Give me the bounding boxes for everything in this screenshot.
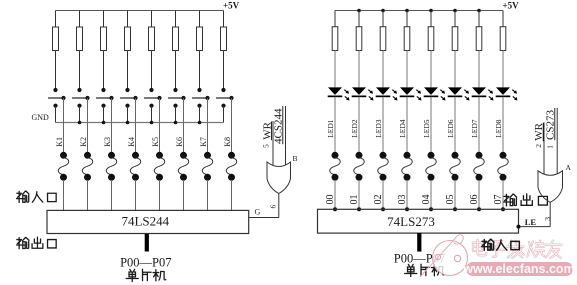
junction (126, 121, 130, 125)
junction (405, 207, 409, 211)
resistor R14 (454, 11, 456, 27)
wire (79, 51, 81, 91)
connector pair O1 (356, 152, 363, 159)
switch arm (144, 97, 160, 99)
svg-text:LED2: LED2 (350, 119, 359, 138)
switch K2 contacts (77, 88, 81, 92)
wire (502, 180, 504, 209)
junction (501, 207, 505, 211)
wire CS273 input (556, 108, 558, 174)
wire (502, 51, 504, 88)
junction (517, 225, 521, 229)
wire gate output pin 3 to LE (549, 202, 551, 226)
svg-text:6: 6 (268, 205, 277, 209)
watermark text 电子发烧友 (473, 240, 486, 256)
wire K4 to input (135, 98, 137, 152)
wire (454, 180, 456, 209)
svg-text:K6: K6 (175, 137, 184, 147)
IC U2 74LS273 (318, 209, 519, 233)
or-gate U4 (WR + CS273) (538, 171, 563, 203)
wire (478, 97, 480, 152)
connector pair O7 (500, 152, 507, 159)
svg-text:74LS244: 74LS244 (121, 214, 169, 229)
wire K8 to input (231, 98, 233, 152)
wire (223, 51, 225, 91)
LED3 (376, 87, 390, 95)
wire (334, 97, 336, 152)
wire (382, 97, 384, 152)
switch arm (168, 97, 184, 99)
junction (333, 207, 337, 211)
junction (357, 207, 361, 211)
svg-text:07: 07 (493, 195, 504, 205)
svg-text:K2: K2 (79, 137, 88, 147)
resistor R1 pull-up (55, 11, 57, 28)
wire (478, 180, 480, 209)
connector pair O5 (452, 152, 459, 159)
wire (358, 97, 360, 152)
wire (430, 180, 432, 209)
svg-text:A: A (566, 163, 572, 172)
resistor R4 pull-up (127, 11, 129, 28)
wire (430, 51, 432, 88)
wire (111, 180, 113, 210)
or-gate U3 (WR + CS244) (267, 162, 291, 194)
svg-text:04: 04 (421, 195, 432, 205)
wire (199, 51, 201, 91)
svg-text:K5: K5 (151, 137, 160, 147)
label MCU 单片机 right (405, 264, 417, 276)
junction (78, 121, 82, 125)
resistor R15 (478, 11, 480, 27)
wire (135, 180, 137, 210)
IC U1 74LS244 (47, 210, 249, 233)
svg-text:01: 01 (349, 195, 360, 205)
junction (381, 9, 385, 13)
label 输出口 right (504, 194, 517, 206)
watermark logo circle (433, 241, 468, 276)
junction (174, 121, 178, 125)
wire (454, 97, 456, 152)
switch K1 contacts (53, 88, 57, 92)
junction (381, 207, 385, 211)
resistor R2 pull-up (79, 11, 81, 28)
svg-text:06: 06 (469, 195, 480, 205)
wire (207, 180, 209, 210)
wire (151, 51, 153, 91)
junction (405, 9, 409, 13)
svg-text:5: 5 (261, 144, 270, 148)
wire (334, 51, 336, 88)
connector pair K2 (84, 152, 91, 159)
svg-text:1: 1 (545, 145, 554, 149)
resistor R12 (406, 11, 408, 27)
junction (429, 207, 433, 211)
connector pair O3 (404, 152, 411, 159)
LED1 (328, 87, 342, 95)
wire (183, 180, 185, 210)
wire K3 to input (111, 98, 113, 152)
LED6 (448, 87, 462, 95)
wire K2 to input (87, 98, 89, 152)
resistor R3 pull-up (103, 11, 105, 28)
svg-text:K1: K1 (55, 137, 64, 147)
svg-text:K3: K3 (103, 137, 112, 147)
svg-text:02: 02 (373, 195, 384, 205)
wire (334, 180, 336, 209)
wire K6 to input (183, 98, 185, 152)
connector pair O4 (428, 152, 435, 159)
svg-text:G: G (255, 208, 261, 217)
switch K3 contacts (101, 88, 105, 92)
connector pair K6 (180, 152, 187, 159)
label 输入口 (17, 191, 29, 202)
wire (430, 97, 432, 152)
svg-text:2: 2 (534, 144, 543, 148)
svg-text:05: 05 (445, 195, 456, 205)
wire (87, 180, 89, 210)
connector pair K8 (228, 152, 235, 159)
svg-text:LED8: LED8 (494, 119, 503, 138)
connector pair O2 (380, 152, 387, 159)
svg-text:K8: K8 (223, 137, 232, 147)
+5V rail left (56, 10, 224, 12)
junction (150, 121, 154, 125)
switch K7 contacts (197, 88, 201, 92)
wire CS244 input (285, 106, 287, 165)
junction (453, 9, 457, 13)
switch K6 contacts (173, 88, 177, 92)
wire (55, 51, 57, 91)
connector pair O6 (476, 152, 483, 159)
svg-text:K4: K4 (127, 137, 136, 147)
resistor R16 (502, 11, 504, 27)
switch arm (96, 97, 112, 99)
wire (175, 51, 177, 91)
junction (429, 9, 433, 13)
svg-text:LED6: LED6 (446, 119, 455, 138)
resistor R8 pull-up (223, 11, 225, 28)
switch arm (216, 97, 232, 99)
LED8 (496, 87, 510, 95)
svg-text:03: 03 (397, 195, 408, 205)
junction (477, 207, 481, 211)
LED4 (400, 87, 414, 95)
LED2 (352, 87, 366, 95)
wire (382, 180, 384, 209)
svg-text:B: B (293, 154, 298, 163)
wire (406, 51, 408, 88)
wire K1 to input (63, 98, 65, 152)
switch K5 contacts (149, 88, 153, 92)
resistor R10 (358, 11, 360, 27)
svg-text:LED5: LED5 (422, 119, 431, 138)
connector pair K1 (60, 152, 67, 159)
connector pair K3 (108, 152, 115, 159)
connector pair K7 (204, 152, 211, 159)
resistor R11 (382, 11, 384, 27)
svg-text:+5V: +5V (223, 1, 240, 11)
wire (127, 51, 129, 91)
svg-text:GND: GND (32, 113, 50, 122)
svg-text:00: 00 (325, 195, 336, 205)
wire (406, 97, 408, 152)
resistor R9 (334, 11, 336, 27)
wire gate output pin 6 to G (278, 194, 280, 218)
switch K4 contacts (125, 88, 129, 92)
wire (358, 51, 360, 88)
junction (357, 9, 361, 13)
watermark url bar (466, 262, 573, 276)
resistor R6 pull-up (175, 11, 177, 28)
svg-text:P00—P07: P00—P07 (120, 255, 171, 269)
resistor R13 (430, 11, 432, 27)
resistor R5 pull-up (151, 11, 153, 28)
LED7 (472, 87, 486, 95)
connector pair K5 (156, 152, 163, 159)
resistor R7 pull-up (199, 11, 201, 28)
label 输出口 (17, 237, 29, 248)
connector pair O0 (332, 152, 339, 159)
svg-text:LED1: LED1 (326, 119, 335, 138)
switch arm (48, 97, 64, 99)
bus P00-P07 right (417, 233, 421, 252)
svg-text:LED7: LED7 (470, 119, 479, 138)
switch arm (120, 97, 136, 99)
junction (198, 121, 202, 125)
wire (103, 51, 105, 91)
label MCU 单片机 (126, 269, 138, 281)
GND rail (56, 122, 224, 124)
label 输入口 right (482, 239, 494, 250)
wire (231, 180, 233, 210)
junction (102, 121, 106, 125)
+5V rail right (335, 10, 503, 12)
wire K5 to input (159, 98, 161, 152)
wire WR input (272, 121, 274, 165)
wire (358, 180, 360, 209)
svg-text:+5V: +5V (503, 1, 520, 11)
svg-text:LED4: LED4 (398, 119, 407, 138)
wire WR input (543, 122, 545, 174)
switch arm (192, 97, 208, 99)
svg-text:3: 3 (543, 217, 552, 221)
junction (453, 207, 457, 211)
svg-text:74LS273: 74LS273 (387, 214, 435, 229)
svg-text:K7: K7 (199, 137, 208, 147)
svg-text:LED3: LED3 (374, 119, 383, 138)
wire (454, 51, 456, 88)
wire (478, 51, 480, 88)
switch arm (72, 97, 88, 99)
wire (382, 51, 384, 88)
wire (159, 180, 161, 210)
bus P00-P07 left (145, 234, 149, 252)
wire (406, 180, 408, 209)
wire K7 to input (207, 98, 209, 152)
svg-text:www.elecfans.com: www.elecfans.com (462, 262, 574, 276)
wire (63, 180, 65, 210)
wire (502, 97, 504, 152)
svg-text:LE: LE (525, 217, 537, 227)
junction (477, 9, 481, 13)
LED5 (424, 87, 438, 95)
connector pair K4 (132, 152, 139, 159)
switch K8 contacts (221, 88, 225, 92)
